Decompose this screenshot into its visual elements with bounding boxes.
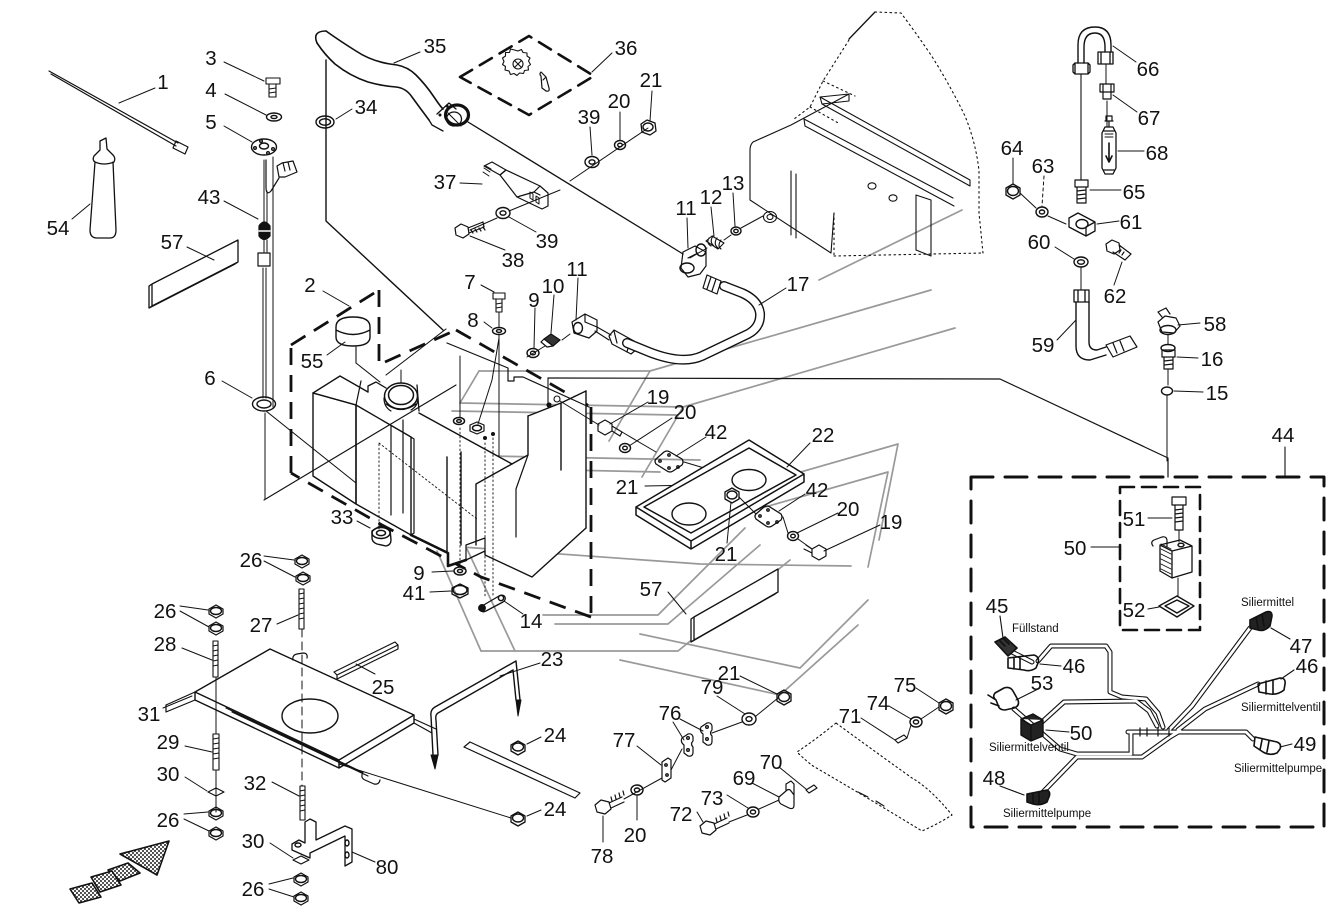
cap to neck line: [356, 347, 380, 382]
connector 47: [1250, 612, 1272, 631]
tank left block front face: [313, 393, 356, 504]
line plate to 24b: [339, 764, 511, 818]
check valve 68: [1102, 127, 1116, 174]
leader 21b: [645, 484, 752, 486]
leader 71: [861, 718, 895, 740]
top-left parts: [49, 62, 297, 499]
svg-text:11: 11: [566, 258, 587, 281]
svg-text:76: 76: [659, 702, 682, 725]
leader 7: [481, 285, 494, 292]
gray band A left: [460, 371, 479, 403]
svg-text:57: 57: [640, 578, 663, 601]
harness wires black: [1012, 628, 1258, 792]
leader 21d: [740, 676, 777, 694]
nuts 26 bottom pair: [294, 873, 308, 886]
svg-text:80: 80: [376, 856, 399, 879]
leader 78: [602, 816, 604, 842]
leader 19a: [610, 402, 648, 424]
nut 24b: [511, 812, 525, 826]
line 51 to solenoid: [1178, 530, 1180, 542]
washer 73: [747, 807, 759, 817]
svg-text:44: 44: [1272, 424, 1295, 447]
leader 20a: [619, 112, 621, 140]
plate rail lines: [226, 708, 580, 798]
svg-text:13: 13: [722, 172, 745, 195]
hose 59: [1076, 302, 1106, 360]
plug 65: [1075, 180, 1088, 203]
svg-text:77: 77: [613, 729, 636, 752]
machine bottom dotted: [834, 213, 983, 256]
svg-text:50: 50: [1064, 537, 1087, 560]
tank assembly: [291, 290, 599, 617]
dashed box 44: [971, 477, 1324, 827]
gray machine panel overlays: [421, 210, 962, 695]
bracket 37: [484, 162, 506, 175]
washer 20a: [615, 141, 626, 150]
bolt7 axis line: [498, 312, 500, 456]
leader 60: [1055, 247, 1074, 259]
gray band D: [421, 467, 660, 472]
nut 33: [372, 526, 391, 546]
connector 48: [1027, 790, 1050, 805]
hose 17 sleeve: [703, 275, 721, 294]
svg-text:50: 50: [1070, 722, 1093, 745]
tube 35 flange: [429, 103, 456, 131]
svg-text:69: 69: [733, 767, 756, 790]
leader 77: [637, 746, 661, 765]
axis 9-10-11: [527, 334, 570, 357]
machine bay channel left: [791, 171, 796, 238]
fitting 67: [1100, 84, 1114, 99]
bracket 61: [1069, 213, 1095, 236]
svg-text:21: 21: [616, 476, 639, 499]
axis 11-12-13: [690, 216, 763, 258]
bolt 19a: [598, 420, 622, 436]
hose 17 tube: [627, 286, 760, 360]
neck step: [368, 382, 386, 392]
dashed boundary 2: [291, 290, 591, 617]
connector 46b: [1258, 678, 1285, 694]
svg-text:68: 68: [1146, 142, 1169, 165]
leader 2: [323, 291, 349, 306]
leader 24a: [527, 737, 541, 744]
leader 9a: [534, 308, 535, 348]
dipstick 43 collar: [258, 253, 270, 266]
leaders 26 bottom: [269, 878, 294, 897]
leader 46b: [1281, 670, 1294, 679]
square washer 30a: [208, 788, 224, 796]
leader 52: [1148, 607, 1159, 609]
svg-text:Füllstand: Füllstand: [1012, 623, 1059, 635]
leader 31: [163, 696, 192, 708]
tank hidden dotted: [379, 443, 477, 529]
strip 25: [334, 642, 398, 679]
ring 15: [1162, 387, 1173, 395]
pin 70: [806, 785, 817, 793]
right block right face: [585, 391, 587, 528]
stud 28-29 line: [215, 677, 217, 734]
svg-text:32: 32: [244, 772, 267, 795]
gray under-tank steep 2: [467, 549, 515, 651]
plate hole: [282, 699, 338, 733]
svg-text:24: 24: [544, 724, 567, 747]
plate 57b: [691, 569, 778, 642]
gray under-tank band 1: [543, 528, 745, 615]
leader 70: [779, 767, 806, 789]
gray long under-tank line: [448, 546, 851, 566]
washer 63: [1036, 207, 1048, 217]
leader 9c: [432, 571, 453, 572]
leader 47: [1271, 628, 1290, 639]
leader 15: [1174, 391, 1203, 392]
leader 61: [1097, 221, 1119, 224]
axis to bolt 19a: [560, 401, 599, 425]
leaders 76: [673, 719, 703, 740]
line from flange 35 to elbow 11: [468, 122, 683, 254]
bolt 51: [1172, 497, 1186, 530]
leader 38: [470, 236, 505, 250]
bolt 72: [700, 812, 729, 835]
svg-text:19: 19: [647, 386, 670, 409]
bottom step links: [448, 538, 485, 566]
mount plate 31: [195, 649, 414, 768]
cap 55: [336, 317, 370, 346]
stud 29: [213, 734, 219, 770]
svg-text:6: 6: [204, 367, 215, 390]
svg-text:Siliermittelventil: Siliermittelventil: [1241, 702, 1321, 714]
leader 63 dashed: [1042, 176, 1044, 206]
svg-text:48: 48: [983, 767, 1006, 790]
svg-text:62: 62: [1104, 285, 1127, 308]
U-bolt arrows: [431, 700, 521, 769]
tank top fastener b: [470, 422, 484, 434]
machine dotted collar: [810, 81, 855, 124]
leader 39b: [590, 127, 592, 155]
leader 46a: [1040, 664, 1061, 666]
svg-text:71: 71: [839, 705, 862, 728]
clamp 76 halves: [681, 734, 693, 756]
svg-text:72: 72: [670, 803, 693, 826]
svg-text:70: 70: [760, 751, 783, 774]
leader 79: [717, 696, 745, 714]
U-tube 66: [1078, 27, 1111, 63]
leader 21a: [650, 91, 652, 121]
cartridge 54: [90, 138, 116, 238]
svg-text:33: 33: [331, 506, 354, 529]
svg-text:2: 2: [304, 274, 315, 297]
svg-text:28: 28: [154, 633, 177, 656]
nut 24a: [511, 741, 525, 755]
svg-text:36: 36: [615, 37, 638, 60]
leader 45: [1000, 616, 1003, 638]
svg-text:8: 8: [467, 309, 478, 332]
svg-text:22: 22: [812, 424, 835, 447]
tank left block top face: [313, 376, 368, 405]
bottom-left mounting: [70, 555, 580, 905]
washer 13: [731, 227, 741, 235]
svg-text:26: 26: [242, 878, 265, 901]
washer 20b: [620, 444, 631, 453]
gray band A top: [479, 290, 931, 371]
nut 75: [939, 699, 953, 714]
dipstick lower line: [264, 413, 266, 499]
leader 75: [916, 688, 939, 703]
plate ears: [166, 653, 436, 784]
leader 68: [1118, 150, 1144, 152]
leader 34: [336, 109, 352, 119]
leader 69: [752, 783, 779, 797]
leaders 26 top: [264, 556, 295, 577]
leader 64: [1012, 158, 1014, 184]
leader 54: [72, 204, 90, 219]
right column parts: [1006, 27, 1203, 461]
tank neck right edge: [417, 385, 419, 411]
connector 45: [995, 637, 1017, 656]
washer 20c: [788, 532, 799, 541]
dipstick 43 rod: [263, 160, 267, 398]
cap 36 tab: [540, 72, 549, 91]
svg-text:10: 10: [542, 275, 565, 298]
hose 17 end fitting: [609, 330, 637, 354]
nuts 26 top pair: [295, 555, 309, 568]
dipstick 43 wire and plug: [277, 161, 297, 177]
nut 64: [1006, 184, 1020, 199]
machine inlet port: [764, 212, 777, 223]
leader 48: [1000, 786, 1024, 795]
leader 62: [1114, 262, 1122, 285]
svg-text:19: 19: [880, 511, 903, 534]
axis 64-63-61: [1020, 193, 1066, 224]
leader 20b: [629, 418, 672, 446]
svg-text:24: 24: [544, 798, 567, 821]
stud 27: [299, 589, 304, 629]
svg-text:42: 42: [705, 421, 728, 444]
bottom-middle clamps: [595, 676, 953, 842]
gray under-tank band 3: [481, 560, 790, 651]
right block top edges: [528, 391, 586, 470]
machine dotted left edge: [794, 40, 849, 119]
axis 19a-21b: [622, 432, 751, 482]
leader 36: [592, 53, 612, 72]
leaders 26 left: [180, 606, 209, 627]
leader 74: [889, 706, 911, 719]
svg-text:16: 16: [1201, 348, 1224, 371]
center fasteners and tray: [598, 402, 880, 642]
leader 29: [185, 746, 212, 752]
svg-text:57: 57: [161, 231, 184, 254]
gray G-main long diagonal: [819, 210, 962, 280]
svg-text:35: 35: [424, 35, 447, 58]
leader 50a: [1091, 546, 1120, 548]
svg-text:31: 31: [138, 703, 161, 726]
svg-text:Siliermittelpumpe: Siliermittelpumpe: [1003, 808, 1091, 820]
dotted leaders to 14: [460, 428, 493, 598]
svg-text:1: 1: [157, 71, 168, 94]
nut 21d: [777, 690, 791, 705]
svg-text:46: 46: [1063, 655, 1086, 678]
gray band B top: [452, 411, 676, 415]
gray band C: [437, 455, 700, 460]
leader 50b: [1046, 730, 1069, 732]
hose 59 top nut: [1074, 290, 1089, 302]
tank rear notch edge: [447, 343, 589, 407]
svg-text:63: 63: [1032, 155, 1055, 178]
svg-text:29: 29: [157, 731, 180, 754]
mount ring: [554, 396, 560, 402]
line grommet to hose 59: [1080, 267, 1082, 290]
leader 16: [1177, 357, 1198, 358]
leader 1: [119, 88, 155, 103]
washer 79: [742, 713, 756, 725]
leader 23: [500, 663, 540, 676]
tower top links: [356, 381, 361, 405]
svg-text:15: 15: [1206, 382, 1229, 405]
tank bottom thick edge: [411, 535, 466, 566]
svg-text:60: 60: [1028, 231, 1051, 254]
svg-text:45: 45: [986, 595, 1009, 618]
tray 22: [636, 440, 804, 549]
deck drop vertical with dot: [547, 378, 549, 403]
bracket 80: [292, 819, 352, 866]
assembly guide lines overlay: [264, 385, 456, 500]
leader 59: [1057, 320, 1076, 340]
stud 32: [300, 786, 305, 820]
svg-text:55: 55: [301, 350, 324, 373]
elbow 58: [1158, 308, 1180, 333]
leader 20c: [797, 513, 838, 533]
solenoid 50a: [1160, 540, 1192, 578]
bolt 38: [455, 222, 485, 238]
flange 5: [252, 139, 277, 155]
nut 21c on tray: [725, 488, 739, 503]
gray band A bottom: [460, 328, 955, 407]
leader 66: [1113, 46, 1136, 62]
svg-text:54: 54: [47, 217, 70, 240]
leader 30b: [270, 843, 293, 858]
leader 21c: [727, 502, 731, 543]
svg-text:30: 30: [157, 763, 180, 786]
gray under-57b band 2: [620, 625, 858, 695]
svg-text:21: 21: [718, 662, 741, 685]
junction ticks: [1140, 728, 1169, 736]
tank bottom silhouette: [411, 528, 586, 577]
leader 42b: [779, 494, 805, 511]
svg-text:34: 34: [355, 96, 378, 119]
line 29-30: [215, 770, 217, 812]
leaders 26 bottom-left: [184, 812, 209, 831]
leader 43: [224, 201, 258, 219]
right block front edges: [476, 416, 528, 545]
svg-text:21: 21: [640, 69, 663, 92]
gray right chevron a: [707, 444, 898, 540]
stud 28: [213, 641, 218, 677]
dipstick guide line: [272, 157, 274, 407]
line 67 to 68: [1106, 101, 1108, 127]
tube connection line: [386, 329, 446, 375]
svg-text:39: 39: [536, 230, 559, 253]
cap 36 gear: [503, 49, 531, 76]
svg-text:75: 75: [894, 674, 917, 697]
top-middle parts: [316, 31, 786, 456]
washer 9a: [527, 349, 539, 358]
svg-text:26: 26: [154, 600, 177, 623]
svg-text:23: 23: [541, 648, 564, 671]
leader 5: [224, 126, 252, 142]
gray under-57b band: [640, 600, 868, 668]
line solenoid to seal: [1177, 578, 1179, 596]
svg-text:7: 7: [464, 271, 475, 294]
pin 71: [895, 735, 907, 743]
leader 57: [187, 247, 214, 260]
leader 11b: [687, 218, 688, 248]
leader 33: [357, 521, 370, 528]
leader 13: [733, 193, 735, 226]
gray under-tank steep 1: [437, 551, 481, 651]
svg-text:3: 3: [205, 47, 216, 70]
svg-text:14: 14: [520, 610, 543, 633]
stud 27 centerline dashed: [301, 629, 303, 786]
leader 80: [352, 852, 375, 862]
svg-text:25: 25: [372, 676, 395, 699]
drain pin 14: [481, 595, 506, 612]
leader 28: [182, 648, 212, 660]
elbow 11a: [572, 314, 597, 338]
washer 39b: [585, 157, 599, 168]
axis 78-21d: [624, 698, 778, 799]
svg-text:4: 4: [205, 79, 216, 102]
leader 49: [1280, 744, 1292, 747]
line 15 down to box44: [1166, 395, 1168, 461]
right leg to 67: [1105, 64, 1107, 84]
connector 49: [1254, 737, 1281, 754]
svg-text:11: 11: [675, 197, 696, 220]
bolt 62: [1106, 240, 1131, 260]
harness box 44: [971, 447, 1324, 827]
machine bolt circles: [868, 183, 876, 189]
machine beam lower: [804, 119, 954, 206]
leader 58: [1178, 323, 1200, 325]
svg-text:42: 42: [806, 479, 829, 502]
leader 3: [224, 62, 264, 81]
leader 20d: [636, 796, 638, 820]
left leg down to 65: [1080, 74, 1082, 180]
hose 59 end fitting: [1106, 336, 1137, 357]
svg-text:59: 59: [1032, 334, 1055, 357]
dashed box 50 inner: [1120, 487, 1200, 630]
plate 42b: [755, 506, 782, 527]
leader 30a: [185, 777, 207, 791]
leader 6: [222, 381, 252, 398]
svg-text:41: 41: [403, 582, 426, 605]
svg-text:27: 27: [250, 614, 273, 637]
gray right chevron b: [695, 472, 888, 567]
tray 22 white fill: [636, 440, 804, 549]
leader 65: [1090, 189, 1121, 191]
tank top fastener a: [454, 418, 465, 425]
svg-text:20: 20: [837, 498, 860, 521]
guide line ring6 to tank corner: [266, 411, 356, 483]
leader 72: [697, 812, 703, 822]
elbow 11b: [681, 246, 706, 277]
svg-text:5: 5: [205, 111, 216, 134]
U-tube right nut 66: [1098, 52, 1113, 64]
cable tie 1: [49, 71, 188, 154]
U-tube left nut: [1073, 63, 1090, 74]
leader 55: [327, 342, 345, 355]
gray under-tank band 2: [555, 545, 760, 624]
machine lower spout dotted: [797, 723, 952, 831]
gray band A steep: [609, 371, 650, 441]
